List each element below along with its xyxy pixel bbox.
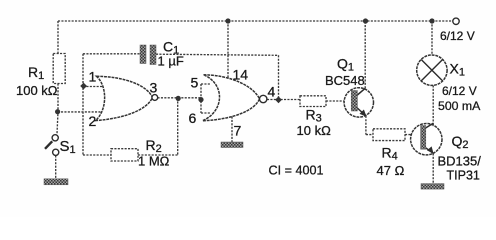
- svg-text:14: 14: [233, 67, 249, 83]
- svg-text:S1: S1: [60, 138, 76, 156]
- svg-text:5: 5: [191, 75, 199, 91]
- svg-text:1 MΩ: 1 MΩ: [138, 154, 170, 169]
- svg-text:R2: R2: [146, 137, 162, 155]
- svg-text:R3: R3: [306, 107, 322, 125]
- svg-text:6/12 V: 6/12 V: [442, 84, 477, 98]
- svg-text:1 µF: 1 µF: [158, 54, 184, 69]
- svg-text:4: 4: [268, 84, 276, 100]
- svg-text:TIP31: TIP31: [447, 169, 480, 183]
- svg-text:47 Ω: 47 Ω: [377, 163, 405, 178]
- svg-text:6: 6: [189, 110, 197, 126]
- svg-text:R4: R4: [382, 145, 398, 163]
- svg-text:R1: R1: [28, 64, 44, 82]
- svg-text:10 kΩ: 10 kΩ: [297, 123, 332, 138]
- svg-text:500 mA: 500 mA: [438, 99, 481, 113]
- svg-text:1: 1: [89, 69, 97, 85]
- svg-text:6/12 V: 6/12 V: [440, 29, 475, 43]
- svg-text:BD135/: BD135/: [438, 154, 482, 169]
- svg-text:BC548: BC548: [325, 73, 365, 88]
- svg-text:Q2: Q2: [452, 133, 469, 151]
- svg-text:CI = 4001: CI = 4001: [269, 164, 324, 178]
- svg-text:100 kΩ: 100 kΩ: [16, 83, 58, 98]
- svg-text:7: 7: [234, 123, 242, 139]
- svg-text:Q1: Q1: [337, 56, 354, 74]
- svg-text:X1: X1: [450, 61, 465, 79]
- svg-text:3: 3: [150, 80, 158, 96]
- svg-text:2: 2: [89, 113, 97, 129]
